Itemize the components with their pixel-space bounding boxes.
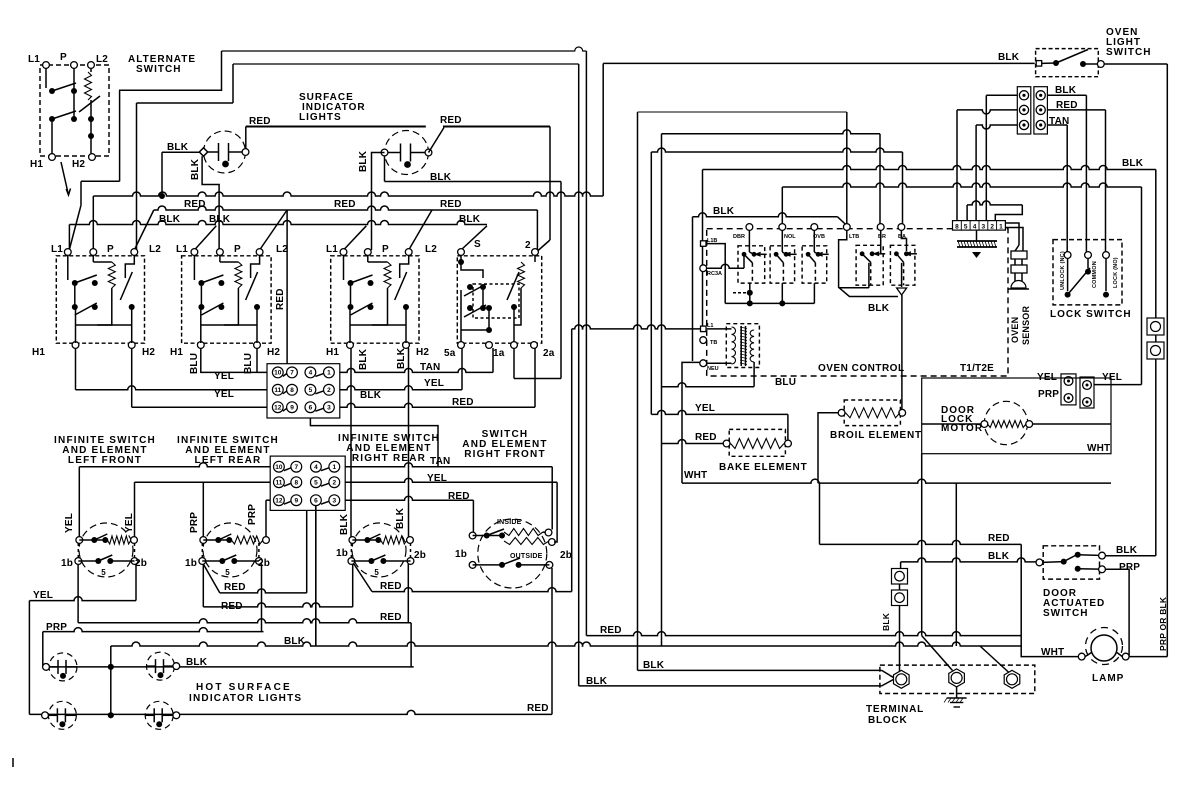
oven control relay 2 (770, 246, 795, 283)
oven control left terminal L1 (701, 326, 707, 332)
svg-text:RED: RED (249, 116, 271, 127)
svg-text:T1/T2E: T1/T2E (960, 363, 994, 374)
element left rear (203, 523, 257, 577)
svg-text:RED: RED (380, 612, 402, 623)
svg-text:BLK: BLK (339, 513, 350, 535)
svg-text:11: 11 (274, 387, 281, 394)
svg-text:LOCK SWITCH: LOCK SWITCH (1050, 309, 1132, 320)
svg-text:P: P (60, 52, 67, 63)
svg-text:WHT: WHT (684, 470, 707, 481)
svg-text:INDICATOR LIGHTS: INDICATOR LIGHTS (189, 693, 302, 704)
oven control transformer (726, 324, 759, 368)
svg-text:5: 5 (374, 568, 379, 577)
wire elem1 row1-left up (78, 467, 80, 537)
svg-text:1b: 1b (455, 549, 467, 560)
svg-text:L1: L1 (28, 54, 40, 65)
svg-text:H2: H2 (142, 347, 155, 358)
svg-text:WHT: WHT (1041, 647, 1064, 658)
svg-text:RC3A: RC3A (707, 271, 722, 277)
svg-text:OVEN CONTROL: OVEN CONTROL (818, 363, 905, 374)
wire BLK from light1 to left (162, 151, 199, 153)
svg-text:BLK: BLK (190, 158, 201, 180)
svg-text:BLK: BLK (159, 214, 181, 225)
svg-text:5: 5 (309, 387, 313, 394)
oven sensor connector (1011, 251, 1027, 259)
wire B2 terminal 6 down to BLK row (315, 506, 317, 647)
infinite switch 3 (right rear) (331, 256, 419, 343)
svg-text:INSIDE: INSIDE (497, 519, 522, 526)
wire broil left (818, 413, 839, 483)
svg-text:5: 5 (101, 568, 106, 577)
connector block B1 (267, 364, 340, 418)
svg-text:BLK: BLK (395, 507, 406, 529)
svg-text:RED: RED (224, 582, 246, 593)
wire transformer secondary down BLU (753, 362, 755, 387)
wire H1 sw1 to connector (75, 348, 77, 390)
wire elem2 row1-right up (265, 500, 267, 537)
wire H1 sw2 to connector (201, 348, 267, 372)
alternate switch internals (45, 68, 47, 88)
svg-text:L2: L2 (425, 244, 437, 255)
svg-text:OUTSIDE: OUTSIDE (510, 553, 543, 560)
wire L2 feed y103 (137, 102, 234, 104)
door lock motor (984, 401, 1027, 444)
svg-text:RED: RED (600, 625, 622, 636)
svg-text:SENSOR: SENSOR (1021, 305, 1031, 345)
wire elem2 riser (306, 510, 308, 593)
wire BLK row to terminal block (638, 669, 882, 671)
svg-text:3: 3 (332, 498, 336, 505)
wire door switch BLK out (1105, 555, 1156, 557)
svg-text:TAN: TAN (430, 456, 450, 467)
wire S sw4 blade (461, 226, 487, 250)
svg-text:TB: TB (710, 340, 717, 346)
svg-text:1: 1 (999, 224, 1003, 231)
svg-text:RED: RED (184, 199, 206, 210)
svg-text:BLK: BLK (360, 390, 382, 401)
wire alt switch feed to L1 switch1 (119, 90, 121, 181)
wire BLK lamp bus to WHT lamp (111, 642, 1021, 646)
verticals under door lock box (921, 454, 923, 636)
wire broil right up to oven control (901, 295, 903, 410)
switch4 inner relay box (473, 284, 519, 318)
svg-text:1b: 1b (336, 548, 348, 559)
svg-text:RED: RED (695, 432, 717, 443)
wire diag to terminal block lug 2 (922, 636, 953, 671)
alternate switch throw arrow (61, 162, 69, 195)
svg-text:2: 2 (990, 224, 994, 231)
wire YEL row (29, 597, 136, 601)
wire L1 sw2 blade (194, 226, 216, 250)
svg-text:P: P (382, 244, 389, 255)
svg-text:12: 12 (274, 405, 282, 412)
svg-text:6: 6 (309, 405, 313, 412)
svg-text:L1: L1 (51, 244, 63, 255)
switch4 terminal S (458, 249, 465, 256)
svg-text:2: 2 (327, 387, 331, 394)
surface indicator light 1 (204, 131, 246, 173)
wire local row above T1 strip (967, 201, 1022, 205)
svg-text:NOL: NOL (784, 234, 796, 240)
svg-text:LAMP: LAMP (1092, 673, 1124, 684)
svg-text:L1: L1 (707, 323, 713, 329)
wire L1B to relay rail (707, 244, 726, 304)
svg-text:L1: L1 (326, 244, 338, 255)
interlock squares mid (892, 569, 908, 585)
alternate switch terminal L2 (88, 62, 95, 69)
svg-text:RED: RED (527, 703, 549, 714)
oven control right BLK rail (839, 230, 898, 297)
wire motor right (1032, 423, 1111, 425)
svg-text:1b: 1b (185, 558, 197, 569)
wire alt-switch to top bus y51 (119, 51, 222, 90)
wire line3 y152 (651, 148, 902, 152)
svg-text:RIGHT REAR: RIGHT REAR (352, 453, 426, 464)
svg-text:8: 8 (294, 480, 298, 487)
oven control relay 4 (856, 245, 883, 285)
svg-text:2b: 2b (560, 550, 572, 561)
wire NEU feed (682, 362, 701, 483)
svg-text:BLU: BLU (775, 377, 796, 388)
element right front (dual) (478, 519, 547, 588)
oven control left terminal NEU (700, 360, 707, 367)
bake element (729, 429, 785, 456)
svg-text:LIGHTS: LIGHTS (299, 112, 342, 123)
oven control relay 5 (890, 245, 915, 285)
wire elem4 2b down (551, 568, 553, 715)
wire row y328 into oven control L1 (572, 325, 701, 329)
svg-text:H1: H1 (170, 347, 183, 358)
svg-text:10: 10 (274, 370, 282, 377)
wire elem1 row1-right up (134, 482, 136, 537)
wire L1 to transformer (707, 328, 732, 330)
wire light2 left to P of switch3 (372, 153, 385, 251)
svg-text:P: P (234, 244, 241, 255)
svg-text:H1: H1 (30, 159, 43, 170)
alternate switch terminal H2 (89, 154, 96, 161)
svg-text:SWITCH: SWITCH (136, 64, 181, 75)
svg-text:RED: RED (334, 199, 356, 210)
svg-text:H1: H1 (32, 347, 45, 358)
wire motor left (922, 423, 982, 425)
svg-text:BLU: BLU (189, 353, 200, 374)
svg-text:BLK: BLK (868, 303, 890, 314)
wire H2 sw1 to connector (131, 348, 133, 407)
svg-text:RED: RED (440, 115, 462, 126)
svg-text:BLK: BLK (1116, 545, 1138, 556)
lock switch blade (1068, 268, 1090, 295)
oven control relay 1 (738, 246, 765, 283)
svg-text:BLK: BLK (713, 206, 735, 217)
svg-text:5: 5 (964, 224, 968, 231)
hot surface lamp 2 (147, 652, 175, 680)
hot surface lamp 3 (48, 701, 76, 729)
svg-text:L1: L1 (176, 244, 188, 255)
broil element (844, 400, 900, 426)
oven control relay feeds (748, 230, 750, 252)
switch4 bottom terminals (458, 342, 465, 349)
svg-text:OVEN: OVEN (1010, 317, 1020, 343)
svg-text:SWITCH: SWITCH (1043, 608, 1088, 619)
wire lamp row 1 (47, 666, 414, 668)
wire RED row B2 to elem4 left-top (345, 496, 473, 500)
svg-text:BLK: BLK (1122, 158, 1144, 169)
alternate switch terminal P (71, 62, 78, 69)
terminal block box (880, 665, 1035, 693)
oven light switch contacts (1036, 61, 1042, 67)
svg-text:BLK: BLK (988, 551, 1010, 562)
wire light2 right blade to RED bus (429, 128, 445, 153)
wire line4 y169.5 (703, 166, 1156, 170)
svg-text:L2: L2 (96, 54, 108, 65)
bus V1 (578, 64, 580, 686)
svg-text:BLK: BLK (998, 52, 1020, 63)
wire line1 y112 (638, 111, 847, 113)
wire L1 sw3 blade (344, 226, 367, 250)
svg-text:7: 7 (290, 370, 294, 377)
wire YEL row to bake element (651, 410, 788, 414)
wire bus y194 from alt switch to x603 (93, 192, 603, 196)
wire H2 sw2 down (256, 348, 258, 372)
svg-text:BLK: BLK (881, 612, 891, 631)
svg-text:1b: 1b (61, 558, 73, 569)
wire RED door row (WHT branch to lamp) (820, 540, 1022, 544)
svg-text:5: 5 (225, 568, 230, 577)
svg-text:8: 8 (955, 224, 959, 231)
svg-text:2b: 2b (414, 550, 426, 561)
door connector strips (1061, 374, 1076, 405)
wire connector row3 left (976, 125, 1017, 129)
svg-text:LOCK (NO): LOCK (NO) (1113, 257, 1119, 288)
svg-text:BROIL ELEMENT: BROIL ELEMENT (830, 430, 922, 441)
svg-text:BLK: BLK (358, 348, 369, 370)
lock switch box (1053, 240, 1122, 305)
wire BLU row (662, 383, 755, 387)
svg-text:PRP: PRP (1038, 389, 1059, 400)
svg-text:BLK: BLK (1055, 85, 1077, 96)
wire elem3 2b down (407, 564, 409, 623)
wire RC3A to relay1 (706, 264, 744, 268)
switch4 internals (460, 255, 462, 262)
svg-text:12: 12 (275, 498, 283, 505)
svg-text:LEFT FRONT: LEFT FRONT (68, 455, 142, 466)
oven control top terminals (746, 224, 753, 231)
svg-text:7: 7 (294, 464, 298, 471)
wire B1 bottom output (310, 418, 438, 467)
svg-text:UNLOCK (NC): UNLOCK (NC) (1060, 251, 1066, 290)
svg-text:H2: H2 (72, 159, 85, 170)
svg-text:10: 10 (275, 464, 283, 471)
wire line2 y133.8 (662, 130, 881, 134)
oven control left terminal L1B (701, 241, 707, 247)
wire RED bus y126.5 (246, 126, 426, 128)
svg-text:RED: RED (440, 199, 462, 210)
wire RED light1 drop (245, 127, 247, 150)
svg-text:5: 5 (314, 480, 318, 487)
svg-text:TAN: TAN (420, 362, 440, 373)
oven control box (707, 229, 1008, 376)
svg-text:RED: RED (988, 533, 1010, 544)
svg-text:8: 8 (290, 387, 294, 394)
wire elem2 row1-left up (202, 482, 204, 537)
svg-text:H1: H1 (326, 347, 339, 358)
svg-text:BR: BR (878, 234, 886, 240)
wire connector row2 left (957, 110, 1017, 114)
wire top bus y64 (233, 63, 579, 65)
door lock motor enclosure (922, 378, 1111, 454)
svg-text:BLK: BLK (186, 657, 208, 668)
svg-text:LTB: LTB (849, 234, 859, 240)
svg-text:BLU: BLU (243, 353, 254, 374)
wire L2sw2 blade to RED bus (260, 210, 288, 250)
infinite switch 1 (left front) (56, 256, 144, 343)
svg-text:1: 1 (332, 464, 336, 471)
alternate switch terminal L1 (43, 62, 50, 69)
oven sensor bulb (1011, 281, 1026, 289)
svg-text:YEL: YEL (214, 371, 234, 382)
svg-text:BLK: BLK (430, 172, 452, 183)
svg-text:2: 2 (332, 480, 336, 487)
wire connector row2 right (1047, 109, 1105, 111)
wire light1 to P of switch2 (202, 156, 219, 250)
svg-text:RED: RED (275, 288, 286, 310)
bus V2 (585, 51, 587, 636)
hot surface lamp 4 (145, 701, 173, 729)
svg-text:9: 9 (290, 405, 294, 412)
svg-text:PRP: PRP (247, 504, 258, 525)
connector strips top right (1017, 87, 1031, 134)
svg-text:BLK: BLK (643, 660, 665, 671)
element right rear (352, 523, 406, 577)
svg-text:HOT SURFACE: HOT SURFACE (196, 682, 292, 693)
wire row D PRP (43, 628, 264, 632)
wire B2 row2 to elem1 right and elem2 left (135, 481, 271, 483)
wire WHT row (682, 479, 1111, 483)
wire elem3 1b diagonal + RED row (354, 564, 372, 592)
svg-text:PRP OR BLK: PRP OR BLK (1158, 596, 1168, 651)
terminal block lugs (894, 670, 910, 688)
wire H1 sw3 down to element3 (350, 348, 352, 540)
alternate switch terminal H1 (49, 154, 56, 161)
connector block B2 (270, 456, 345, 510)
svg-text:BLK: BLK (396, 347, 407, 369)
svg-text:YEL: YEL (424, 378, 444, 389)
wire BLK door row squares to switch (900, 562, 902, 568)
svg-text:L2: L2 (149, 244, 161, 255)
oven control relay 3 (802, 246, 827, 283)
svg-text:1a: 1a (493, 348, 505, 359)
stray mark bottom left (12, 758, 14, 767)
svg-text:3: 3 (982, 224, 986, 231)
wire elem2 1b diagonal + RED row A (203, 564, 220, 593)
svg-text:RIGHT FRONT: RIGHT FRONT (464, 449, 546, 460)
wire connector row2 to 5a (340, 386, 462, 390)
svg-text:PRP: PRP (189, 512, 200, 533)
svg-text:H2: H2 (267, 347, 280, 358)
wire terminal x514 to bus (513, 348, 515, 379)
wire YEL row B2 to elem4 right-mid (345, 478, 557, 482)
svg-text:L2: L2 (276, 244, 288, 255)
svg-text:DBR: DBR (733, 234, 745, 240)
T1 strip heater bar (957, 240, 997, 242)
wire elem1 1b down (77, 564, 79, 623)
wire connector row3 to 2a (340, 403, 535, 407)
svg-text:YEL: YEL (124, 513, 135, 533)
svg-text:H2: H2 (416, 347, 429, 358)
wire connector row1 left (986, 94, 1017, 96)
wire connector row1 to 1a (340, 368, 493, 372)
svg-text:RED: RED (380, 581, 402, 592)
infinite switch 2 (left rear) (182, 256, 272, 343)
wire bottom row to terminal block (579, 685, 882, 687)
svg-text:2a: 2a (543, 348, 555, 359)
svg-text:3: 3 (327, 405, 331, 412)
hot surface lamp 1 (49, 653, 77, 681)
svg-text:2b: 2b (258, 558, 270, 569)
svg-text:1: 1 (327, 370, 331, 377)
svg-text:BLK: BLK (209, 214, 231, 225)
wire NEU to transformer (707, 362, 732, 364)
oven light switch box (1036, 49, 1099, 77)
wire lamp junction vertical (110, 646, 112, 715)
door actuated switch box (1043, 546, 1099, 579)
wire oven light switch out to right edge (1104, 63, 1168, 65)
svg-text:BAKE ELEMENT: BAKE ELEMENT (719, 462, 808, 473)
svg-text:11: 11 (275, 480, 282, 487)
svg-text:4: 4 (314, 464, 318, 471)
svg-text:S: S (474, 239, 481, 250)
svg-text:YEL: YEL (214, 389, 234, 400)
oven control left terminal TB (700, 337, 707, 344)
wire L2sw3 blade to RED bus (409, 210, 432, 250)
svg-text:TERMINAL: TERMINAL (866, 704, 924, 715)
alternate switch box (40, 65, 109, 156)
svg-text:SWITCH: SWITCH (1106, 47, 1151, 58)
svg-text:BLK: BLK (459, 214, 481, 225)
svg-text:BLK: BLK (167, 142, 189, 153)
wire B2 row3 stub to elem2 right (266, 499, 270, 501)
svg-text:BLK: BLK (358, 150, 369, 172)
interlock connector squares right (1147, 318, 1164, 335)
wire RED row to bake element (662, 440, 724, 444)
svg-text:YEL: YEL (695, 403, 715, 414)
wire line5 y187 (782, 183, 1141, 187)
lock switch terminals (1064, 252, 1071, 259)
oven control left terminal RC3A (700, 265, 707, 272)
wire B2 row1 to elem1 (79, 463, 270, 467)
svg-text:4: 4 (973, 224, 977, 231)
surface indicator light 2 (385, 131, 429, 175)
wires strip to sensor (1005, 223, 1019, 251)
svg-text:LEFT REAR: LEFT REAR (195, 455, 262, 466)
ground symbol (956, 687, 958, 698)
svg-text:2: 2 (525, 240, 531, 251)
wire H2 sw3 down to element3 (408, 348, 410, 540)
element left front (79, 523, 133, 577)
wire door switch PRP out (1105, 569, 1129, 656)
svg-text:WHT: WHT (1087, 443, 1110, 454)
wire TAN row B2 to elem4 right-top (345, 463, 552, 467)
svg-text:9: 9 (294, 498, 298, 505)
svg-text:5a: 5a (444, 348, 456, 359)
svg-text:4: 4 (309, 370, 313, 377)
svg-text:2b: 2b (135, 558, 147, 569)
switch 4 (right front) box (457, 256, 541, 343)
svg-text:YEL: YEL (33, 590, 53, 601)
svg-text:P: P (107, 244, 114, 255)
T1 terminal strip (953, 221, 1006, 231)
wire light2 BLK down-right bus y181.5 (384, 156, 386, 182)
